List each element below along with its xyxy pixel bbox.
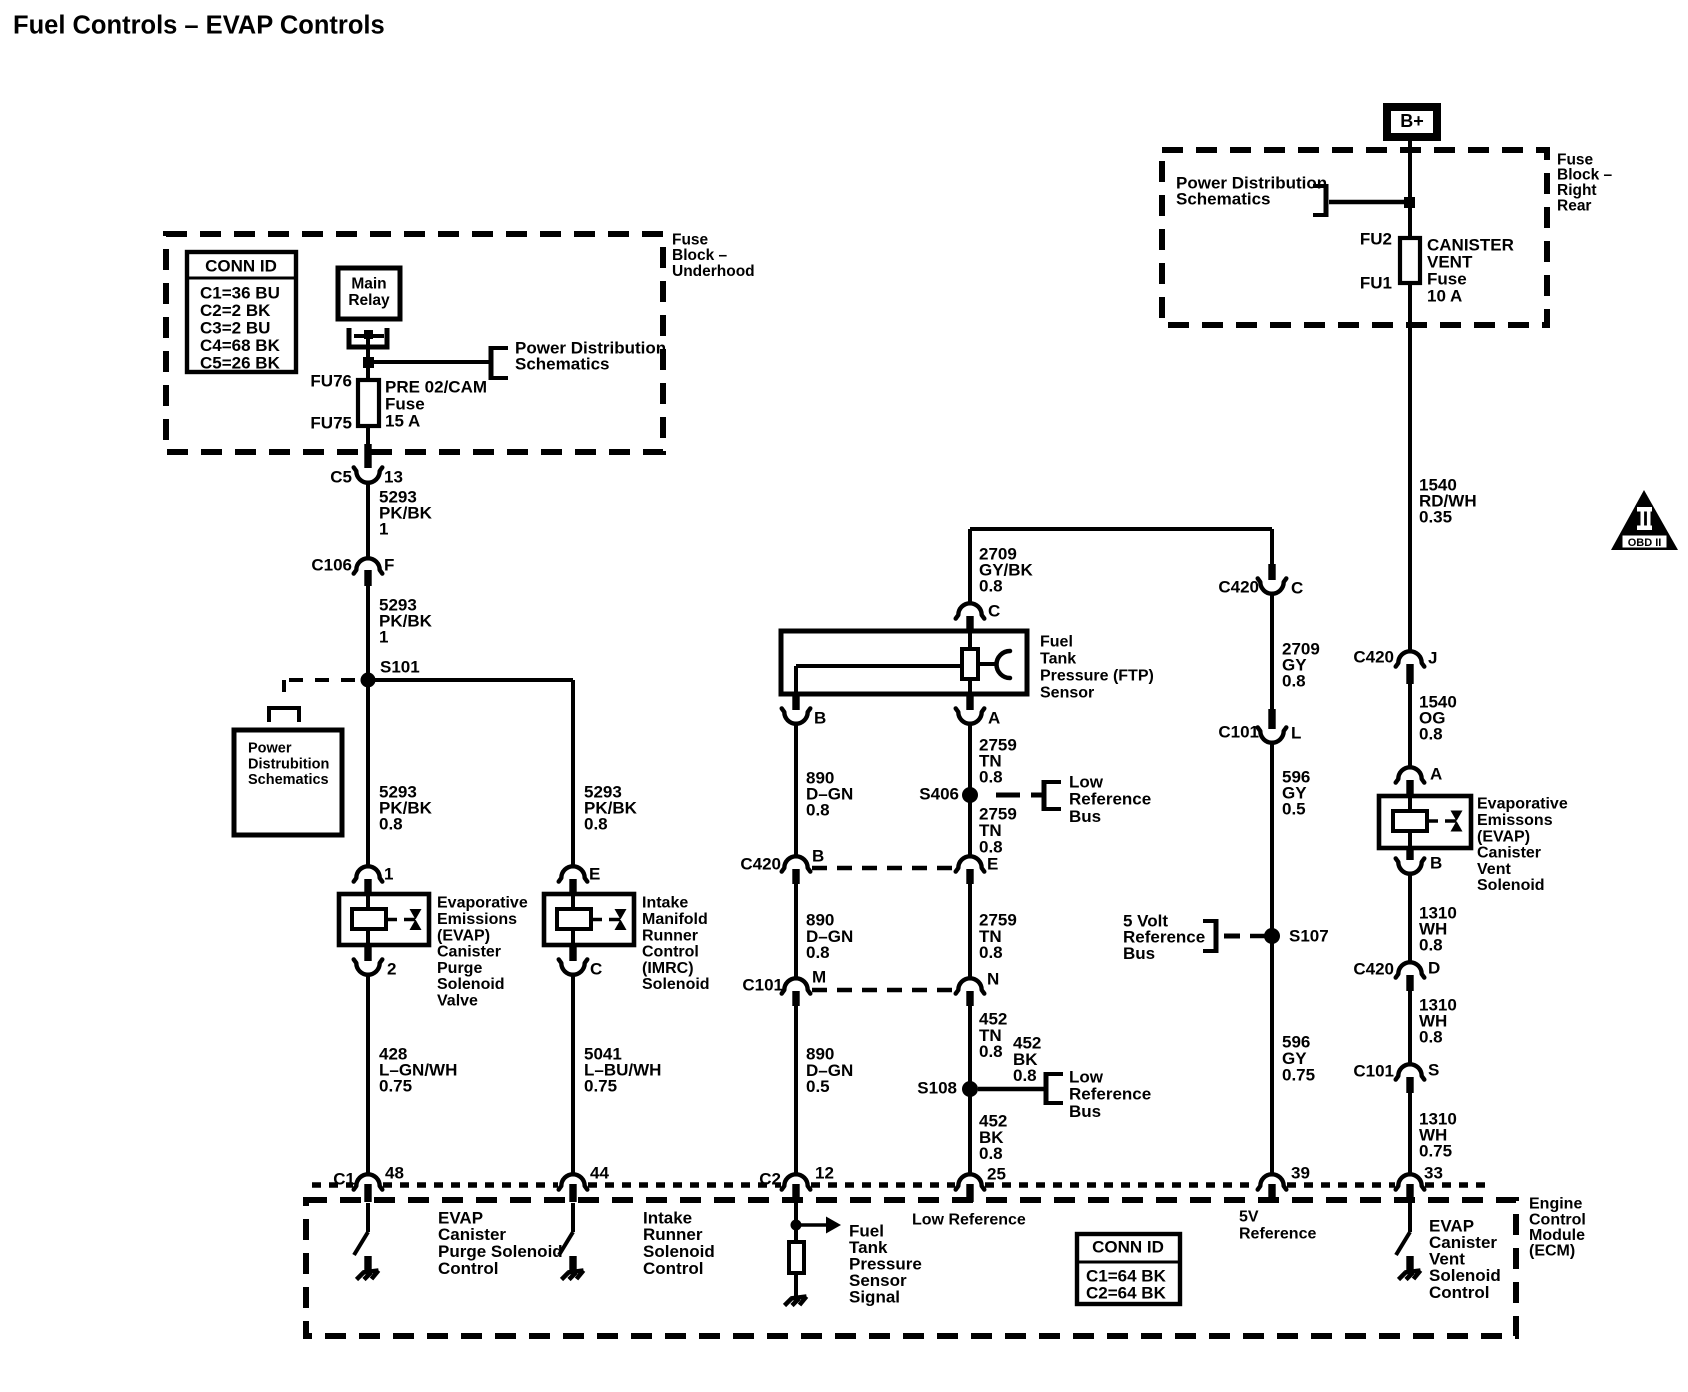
svg-text:Relay: Relay bbox=[348, 292, 390, 309]
tie S107 to 5 volt reference bus bbox=[1250, 934, 1266, 939]
ECM connector dotted line bbox=[312, 1182, 353, 1188]
B+ battery feed box bbox=[1387, 107, 1437, 137]
svg-text:15 A: 15 A bbox=[385, 411, 420, 430]
svg-text:0.8: 0.8 bbox=[979, 943, 1003, 962]
wire C101 N to S108, circuit 452 TN bbox=[968, 1006, 972, 1175]
svg-text:5V: 5V bbox=[1239, 1209, 1259, 1226]
svg-text:0.8: 0.8 bbox=[1282, 671, 1306, 690]
svg-text:Sensor: Sensor bbox=[1040, 685, 1094, 702]
svg-text:Reference: Reference bbox=[1239, 1226, 1316, 1243]
wire C101 L to ECM pin 39 through S107, circuit 596 GY bbox=[1270, 743, 1274, 1175]
svg-text:E: E bbox=[987, 854, 998, 873]
svg-text:Control: Control bbox=[438, 1259, 498, 1278]
svg-text:Distrubition: Distrubition bbox=[248, 756, 329, 772]
svg-text:Reference: Reference bbox=[1069, 1085, 1151, 1104]
wire C420 J to vent solenoid A, circuit 1540 OG bbox=[1408, 684, 1412, 768]
wire C420 C to C101 L, circuit 2709 GY bbox=[1270, 594, 1274, 711]
svg-text:D: D bbox=[1428, 958, 1440, 977]
connector C101 terminal L bbox=[1268, 709, 1275, 729]
FTP sensor internal resistor element bbox=[968, 632, 972, 649]
svg-text:Module: Module bbox=[1529, 1227, 1585, 1244]
connector terminal C of FTP sensor bbox=[956, 603, 985, 618]
ECM connector C2 pin 12 bbox=[782, 1174, 811, 1189]
svg-text:C101: C101 bbox=[742, 975, 783, 994]
EVAP canister purge solenoid valve bbox=[339, 894, 429, 945]
connector terminal 1 of EVAP purge solenoid bbox=[354, 866, 383, 881]
svg-text:Schematics: Schematics bbox=[515, 354, 610, 373]
svg-text:CONN ID: CONN ID bbox=[1092, 1237, 1164, 1256]
svg-text:Solenoid: Solenoid bbox=[1477, 877, 1545, 894]
svg-text:0.5: 0.5 bbox=[1282, 799, 1306, 818]
svg-text:(ECM): (ECM) bbox=[1529, 1243, 1575, 1260]
off-page bracket: power distribution schematics (right rear) bbox=[1324, 184, 1329, 217]
FTP sensor wiper bbox=[978, 662, 997, 666]
main relay box bbox=[338, 268, 400, 319]
svg-text:S: S bbox=[1428, 1060, 1439, 1079]
svg-text:48: 48 bbox=[385, 1163, 404, 1182]
wire from relay to junction bbox=[366, 339, 370, 362]
svg-text:0.8: 0.8 bbox=[584, 814, 608, 833]
svg-text:Fuel: Fuel bbox=[1040, 634, 1073, 651]
svg-text:0.8: 0.8 bbox=[806, 943, 830, 962]
svg-text:C3=2 BU: C3=2 BU bbox=[200, 318, 270, 337]
svg-text:S101: S101 bbox=[380, 657, 420, 676]
EVAP canister vent solenoid bbox=[1379, 796, 1471, 848]
wire C420 E to C101 N, circuit 2759 TN bbox=[968, 884, 972, 979]
svg-text:(EVAP): (EVAP) bbox=[437, 927, 490, 944]
fuse block - right rear dashed enclosure bbox=[1162, 150, 1547, 325]
ECM driver switch: EVAP canister purge solenoid control bbox=[366, 1203, 370, 1232]
svg-text:Fuel Controls – EVAP Controls: Fuel Controls – EVAP Controls bbox=[13, 12, 385, 40]
svg-text:0.35: 0.35 bbox=[1419, 507, 1452, 526]
wire junction to fuse FU76 bbox=[366, 362, 370, 381]
svg-text:C4=68 BK: C4=68 BK bbox=[200, 336, 281, 355]
svg-text:Schematics: Schematics bbox=[1176, 190, 1271, 209]
ECM driver switch: intake runner solenoid control bbox=[571, 1203, 575, 1232]
wire fuse to connector C5 bbox=[366, 426, 370, 446]
svg-text:0.75: 0.75 bbox=[584, 1076, 617, 1095]
svg-text:FU1: FU1 bbox=[1360, 273, 1392, 292]
svg-text:10 A: 10 A bbox=[1427, 286, 1462, 305]
connector C106 terminal F bbox=[354, 558, 383, 573]
wire C101 S to ECM pin 33, circuit 1310 WH 0.75 bbox=[1408, 1093, 1412, 1175]
svg-text:J: J bbox=[1428, 648, 1437, 667]
power distrubition schematics reference box bbox=[234, 730, 342, 835]
svg-text:Signal: Signal bbox=[849, 1287, 900, 1306]
svg-text:C: C bbox=[590, 959, 602, 978]
svg-text:C2=2 BK: C2=2 BK bbox=[200, 301, 271, 320]
wire vent solenoid B to C420 D, circuit 1310 WH bbox=[1408, 874, 1412, 963]
junction at FTP signal input bbox=[791, 1220, 802, 1231]
connector terminal B of EVAP vent solenoid bbox=[1406, 848, 1413, 860]
ground (vent driver) bbox=[1405, 1271, 1421, 1273]
svg-text:B: B bbox=[812, 846, 824, 865]
svg-text:Schematics: Schematics bbox=[248, 772, 329, 788]
tie S108 to low reference bus bbox=[978, 1087, 1046, 1092]
off-page fork to power distrubition schematics box bbox=[267, 706, 301, 710]
svg-text:0.75: 0.75 bbox=[379, 1076, 412, 1095]
svg-text:39: 39 bbox=[1291, 1163, 1310, 1182]
signal arrow bbox=[796, 1223, 827, 1227]
wire junction to power distribution bracket bbox=[368, 360, 491, 364]
connector terminal E of IMRC solenoid bbox=[559, 866, 588, 881]
svg-text:Vent: Vent bbox=[1477, 861, 1511, 878]
junction below main relay bbox=[363, 357, 374, 368]
svg-text:FU76: FU76 bbox=[310, 371, 352, 390]
off-page bracket: low reference bus (S108) bbox=[1044, 1072, 1049, 1105]
svg-text:C1=64 BK: C1=64 BK bbox=[1086, 1266, 1167, 1285]
connector terminal B of FTP sensor bbox=[792, 694, 799, 710]
wire IMRC solenoid to ECM pin 44, circuit 5041 L-BU/WH bbox=[571, 975, 575, 1175]
wire FTP B to C420 pin B, circuit 890 D-GN bbox=[794, 724, 798, 857]
svg-text:OBD II: OBD II bbox=[1628, 537, 1662, 549]
svg-text:Low Reference: Low Reference bbox=[912, 1212, 1026, 1229]
dashed connector line C101 bbox=[812, 988, 955, 993]
wire S101 branch right to IMRC solenoid bbox=[368, 678, 573, 682]
svg-text:Canister: Canister bbox=[437, 944, 501, 961]
connector C5 terminal 13 bbox=[364, 444, 371, 468]
svg-text:33: 33 bbox=[1424, 1163, 1443, 1182]
svg-text:0.8: 0.8 bbox=[1013, 1066, 1037, 1085]
dashed tie S406 to low reference bus bbox=[996, 793, 1020, 798]
svg-text:Low: Low bbox=[1069, 772, 1104, 791]
svg-text:FU75: FU75 bbox=[310, 413, 352, 432]
svg-text:Solenoid: Solenoid bbox=[437, 976, 505, 993]
svg-text:Low: Low bbox=[1069, 1067, 1104, 1086]
main relay socket symbol bbox=[349, 328, 387, 347]
connector terminal A of EVAP vent solenoid bbox=[1396, 767, 1425, 782]
svg-text:Valve: Valve bbox=[437, 993, 478, 1010]
svg-text:A: A bbox=[1430, 764, 1442, 783]
svg-text:Control: Control bbox=[642, 944, 699, 961]
ECM connector pin 33 bbox=[1396, 1174, 1425, 1189]
svg-text:0.8: 0.8 bbox=[1419, 1027, 1443, 1046]
svg-text:1: 1 bbox=[379, 519, 388, 538]
svg-text:Bus: Bus bbox=[1069, 807, 1101, 826]
svg-text:1: 1 bbox=[384, 864, 393, 883]
svg-text:B+: B+ bbox=[1400, 111, 1424, 131]
svg-text:CONN ID: CONN ID bbox=[205, 256, 277, 275]
svg-text:(EVAP): (EVAP) bbox=[1477, 828, 1530, 845]
wire FTP A to S406, circuit 2759 TN bbox=[968, 724, 972, 857]
svg-text:Manifold: Manifold bbox=[642, 911, 708, 928]
svg-text:C1: C1 bbox=[333, 1169, 355, 1188]
svg-text:0.8: 0.8 bbox=[979, 767, 1003, 786]
svg-text:Evaporative: Evaporative bbox=[1477, 796, 1568, 813]
svg-text:Evaporative: Evaporative bbox=[437, 895, 528, 912]
off-page bracket: low reference bus (S406) bbox=[1042, 780, 1047, 811]
svg-text:C420: C420 bbox=[1353, 959, 1394, 978]
svg-text:Bus: Bus bbox=[1069, 1102, 1101, 1121]
svg-text:25: 25 bbox=[987, 1164, 1006, 1183]
splice S108 bbox=[962, 1081, 978, 1097]
svg-text:E: E bbox=[589, 864, 600, 883]
svg-text:F: F bbox=[384, 555, 394, 574]
wire C420 B to C101 M, circuit 890 D-GN bbox=[794, 884, 798, 979]
splice S101 bbox=[361, 673, 376, 688]
wire fuse to C420 J, circuit 1540 RD/WH bbox=[1408, 283, 1412, 652]
wire C106 to S101, circuit 5293 PK/BK 1 bbox=[366, 586, 370, 867]
connector terminal C of IMRC solenoid bbox=[569, 945, 576, 961]
connector C420 terminal J bbox=[1396, 651, 1425, 666]
svg-text:B: B bbox=[1430, 853, 1442, 872]
ECM internal pull resistor bbox=[789, 1242, 804, 1273]
svg-text:S406: S406 bbox=[919, 784, 959, 803]
svg-text:Intake: Intake bbox=[642, 895, 688, 912]
connector C420 terminal D bbox=[1396, 962, 1425, 977]
svg-text:S108: S108 bbox=[917, 1078, 957, 1097]
svg-text:C101: C101 bbox=[1218, 722, 1259, 741]
fuel tank pressure (FTP) sensor box bbox=[781, 631, 1027, 694]
fuse block - underhood dashed enclosure bbox=[166, 234, 663, 452]
svg-text:C5=26 BK: C5=26 BK bbox=[200, 353, 281, 372]
wire purge solenoid to ECM pin 48, circuit 428 L-GN/WH bbox=[366, 975, 370, 1175]
junction in fuse block right rear bbox=[1404, 197, 1415, 208]
svg-text:C2=64 BK: C2=64 BK bbox=[1086, 1284, 1167, 1303]
svg-text:A: A bbox=[988, 708, 1000, 727]
svg-text:FU2: FU2 bbox=[1360, 229, 1392, 248]
wire C101 M to ECM pin 12, circuit 890 D-GN 0.5 bbox=[794, 1006, 798, 1175]
svg-text:0.8: 0.8 bbox=[979, 576, 1003, 595]
dashed connector line C420 bbox=[812, 866, 955, 871]
wire junction to power distribution bracket (right) bbox=[1329, 200, 1410, 205]
svg-text:Tank: Tank bbox=[1040, 651, 1076, 668]
svg-text:C1=36 BU: C1=36 BU bbox=[200, 283, 280, 302]
svg-text:C: C bbox=[988, 601, 1000, 620]
ECM connector pin 44 bbox=[559, 1174, 588, 1189]
ground (FTP signal) bbox=[791, 1297, 807, 1299]
svg-text:0.5: 0.5 bbox=[806, 1077, 830, 1096]
dashed reference from S101 to power distrubition schematics bbox=[284, 678, 355, 682]
svg-text:0.75: 0.75 bbox=[1419, 1141, 1452, 1160]
svg-text:Underhood: Underhood bbox=[672, 263, 755, 280]
splice S406 bbox=[962, 787, 978, 803]
svg-text:M: M bbox=[812, 967, 826, 986]
svg-text:0.8: 0.8 bbox=[806, 800, 830, 819]
svg-text:0.75: 0.75 bbox=[1282, 1065, 1315, 1084]
svg-text:C420: C420 bbox=[740, 854, 781, 873]
svg-text:C101: C101 bbox=[1353, 1061, 1394, 1080]
ECM connector pin 25 bbox=[956, 1174, 985, 1189]
svg-text:C2: C2 bbox=[759, 1169, 781, 1188]
svg-text:2: 2 bbox=[387, 959, 396, 978]
svg-text:Runner: Runner bbox=[642, 927, 698, 944]
connector C420 terminal C bbox=[1268, 564, 1275, 580]
wire C420 D to C101 S, circuit 1310 WH bbox=[1408, 991, 1412, 1065]
wire C5 to C106, circuit 5293 PK/BK 1 bbox=[366, 482, 370, 559]
C101 terminal N arc bbox=[956, 978, 985, 993]
CONN ID table (C1-C5) bbox=[187, 252, 296, 372]
svg-text:C: C bbox=[1291, 578, 1303, 597]
svg-text:Emissons: Emissons bbox=[1477, 812, 1553, 829]
svg-text:Emissions: Emissions bbox=[437, 911, 517, 928]
ECM connector C1 pin 48 bbox=[354, 1174, 383, 1189]
connector C101 terminal S bbox=[1396, 1064, 1425, 1079]
ECM input: fuel tank pressure sensor signal bbox=[794, 1203, 798, 1242]
svg-text:Main: Main bbox=[351, 275, 386, 292]
svg-text:Pressure (FTP): Pressure (FTP) bbox=[1040, 668, 1154, 685]
svg-text:C420: C420 bbox=[1353, 647, 1394, 666]
svg-text:Solenoid: Solenoid bbox=[642, 976, 710, 993]
svg-text:S107: S107 bbox=[1289, 926, 1329, 945]
svg-text:Power: Power bbox=[248, 741, 292, 757]
svg-text:0.8: 0.8 bbox=[1419, 935, 1443, 954]
svg-text:44: 44 bbox=[590, 1163, 609, 1182]
svg-text:Control: Control bbox=[643, 1259, 703, 1278]
connector terminal A of FTP sensor bbox=[966, 694, 973, 710]
svg-text:C5: C5 bbox=[330, 467, 352, 486]
svg-text:0.8: 0.8 bbox=[979, 1144, 1003, 1163]
svg-text:0.8: 0.8 bbox=[1419, 724, 1443, 743]
svg-text:1: 1 bbox=[379, 627, 388, 646]
svg-text:B: B bbox=[814, 708, 826, 727]
svg-text:12: 12 bbox=[815, 1163, 834, 1182]
svg-text:Engine: Engine bbox=[1529, 1196, 1582, 1213]
svg-text:Reference: Reference bbox=[1069, 790, 1151, 809]
CONN ID table (ECM) bbox=[1077, 1234, 1180, 1304]
ground (runner driver) bbox=[568, 1271, 584, 1273]
svg-text:13: 13 bbox=[384, 467, 403, 486]
OBD II marker triangle bbox=[1611, 490, 1678, 550]
wire top run down to C420 C bbox=[1270, 529, 1274, 566]
ground (purge driver) bbox=[363, 1271, 379, 1273]
C101 terminal M arc bbox=[782, 978, 811, 993]
svg-text:N: N bbox=[987, 969, 999, 988]
svg-text:L: L bbox=[1291, 723, 1301, 742]
svg-text:Purge: Purge bbox=[437, 960, 482, 977]
off-page bracket: power distribution schematics (underhood) bbox=[489, 346, 494, 380]
svg-text:Rear: Rear bbox=[1557, 198, 1591, 215]
intake manifold runner control (IMRC) solenoid bbox=[544, 894, 634, 945]
svg-text:Control: Control bbox=[1529, 1211, 1586, 1228]
engine control module (ECM) dashed enclosure bbox=[306, 1200, 1516, 1336]
FTP sensor internal wire to terminal B bbox=[796, 664, 962, 668]
svg-text:Fuse: Fuse bbox=[672, 231, 709, 248]
svg-text:C420: C420 bbox=[1218, 577, 1259, 596]
svg-text:Block –: Block – bbox=[672, 247, 728, 264]
connector terminal 2 of EVAP purge solenoid bbox=[364, 945, 371, 961]
fuse CANISTER VENT FU2/FU1 bbox=[1400, 238, 1420, 283]
off-page bracket: 5 volt reference bus bbox=[1214, 919, 1219, 953]
C420 terminal E arc bbox=[956, 856, 985, 871]
ECM connector pin 39 bbox=[1258, 1174, 1287, 1189]
svg-text:Bus: Bus bbox=[1123, 944, 1155, 963]
svg-text:(IMRC): (IMRC) bbox=[642, 960, 694, 977]
svg-text:Control: Control bbox=[1429, 1283, 1489, 1302]
fuse PRE O2/CAM FU76/FU75 bbox=[358, 380, 379, 426]
splice S107 bbox=[1264, 928, 1280, 944]
svg-text:Canister: Canister bbox=[1477, 845, 1541, 862]
wire FTP sensor C to 5V reference line (top run) bbox=[970, 527, 1272, 531]
wire B+ to junction bbox=[1408, 141, 1412, 238]
ECM driver switch: EVAP canister vent solenoid control bbox=[1408, 1203, 1412, 1232]
C420 terminal B arc bbox=[782, 856, 811, 871]
svg-text:0.8: 0.8 bbox=[379, 814, 403, 833]
svg-text:C106: C106 bbox=[311, 555, 352, 574]
svg-text:0.8: 0.8 bbox=[979, 1042, 1003, 1061]
